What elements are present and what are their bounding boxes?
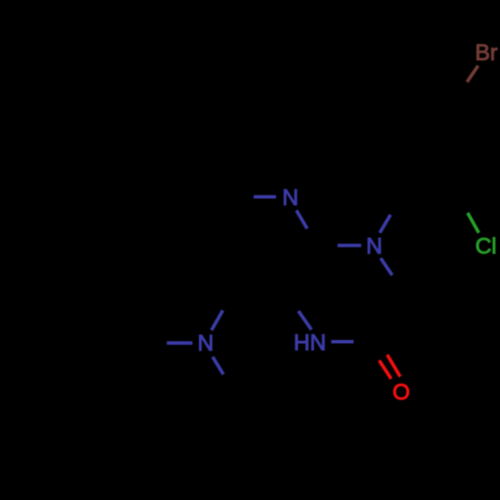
- wire N3-C5 half-bond: [212, 310, 223, 330]
- wire C-Cl half-bond: [468, 213, 479, 233]
- svg-text:Cl: Cl: [475, 233, 496, 258]
- wire C-Br half-bond: [467, 66, 478, 82]
- wire N2-CH2 half-bond: [381, 258, 393, 275]
- wire N3-methyl half-bond: [167, 341, 193, 344]
- wire HN-C(=O) half-bond: [331, 340, 353, 343]
- wire N3-methyl2 half-bond: [213, 357, 224, 375]
- svg-text:N: N: [366, 234, 382, 259]
- svg-text:O: O: [392, 380, 410, 405]
- svg-text:N: N: [197, 330, 213, 355]
- wire N2-phenyl half-bond: [380, 215, 391, 233]
- wire N2-C8a half-bond: [338, 244, 362, 247]
- wire N1-C8a half-bond: [296, 210, 307, 228]
- svg-text:N: N: [282, 185, 298, 210]
- svg-text:HN: HN: [294, 330, 327, 355]
- svg-text:Br: Br: [475, 40, 498, 65]
- wire HN-C4a half-bond: [298, 311, 311, 330]
- wire N1-C7 half-bond: [254, 195, 276, 198]
- wire C=O double bond line 1: [379, 360, 391, 378]
- wire C=O double bond line 2: [387, 355, 400, 377]
